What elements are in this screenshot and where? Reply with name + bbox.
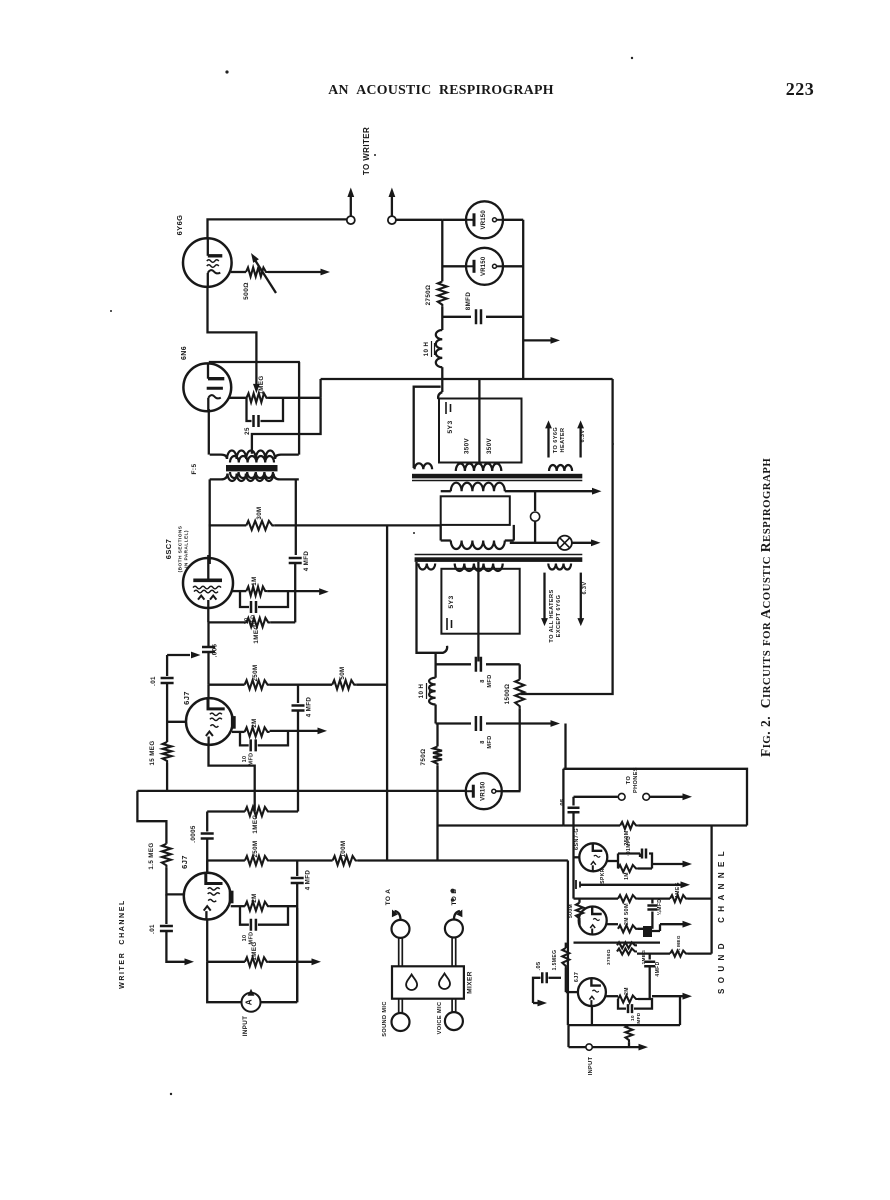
- capacitor .01 upper: [161, 678, 174, 683]
- capacitor 25: [254, 415, 259, 427]
- transformer P2 core: [415, 554, 583, 556]
- transformer P2 5V winding: [418, 564, 435, 570]
- pot arrow across 500 ohm: [254, 259, 276, 294]
- arrow hook A: [395, 911, 401, 920]
- tube V1 6Y6G: [183, 238, 232, 287]
- transformer P2 heater winding: [548, 564, 571, 570]
- mixer box: [392, 966, 464, 998]
- transformer P1 5V winding: [415, 463, 433, 469]
- wire 6N6 stage box top: [209, 361, 300, 363]
- svg-text:4MFD: 4MFD: [655, 961, 661, 976]
- arrow into grid junction: [167, 654, 190, 656]
- wire input column mid: [166, 683, 168, 742]
- svg-text:·SPKR: ·SPKR: [600, 868, 606, 886]
- fuse circle: [534, 491, 536, 511]
- transformer T1 core: [226, 465, 278, 471]
- svg-text:VR150: VR150: [481, 256, 487, 276]
- wire inner right rail: [710, 826, 712, 954]
- wire vr right rail: [522, 220, 524, 379]
- svg-text:2M: 2M: [251, 893, 258, 902]
- resistor 50M a: [332, 680, 356, 689]
- wire pot right: [269, 397, 321, 399]
- arrow 6Y6G heater b: [579, 427, 581, 458]
- svg-text:350V: 350V: [463, 438, 470, 455]
- wire vr2 left: [442, 265, 467, 267]
- resistor 1MEG coupling: [245, 807, 270, 816]
- svg-text:1MEG: 1MEG: [675, 882, 681, 898]
- wire 6SC7 box right (4MFD rail): [295, 479, 297, 555]
- resistor 500 ohm: [246, 268, 268, 277]
- meter A: [242, 993, 261, 1012]
- wire bottom rail left: [567, 1025, 569, 1047]
- svg-text:TO: TO: [626, 776, 632, 785]
- wire cathode row b: [207, 961, 245, 963]
- arrow wire writer output: [268, 271, 322, 273]
- wire B+ vertical rail: [386, 525, 388, 860]
- capacitor 10MFD: [251, 601, 256, 613]
- svg-text:.005: .005: [212, 644, 219, 658]
- svg-text:MFD: MFD: [249, 753, 255, 766]
- svg-text:50M: 50M: [624, 903, 630, 915]
- svg-text:500Ω: 500Ω: [243, 282, 250, 300]
- wire 100M to sound channel rail: [358, 859, 568, 861]
- tube S2: [579, 907, 607, 935]
- rectifier hook no1: [438, 392, 442, 399]
- wire S3 cathode: [591, 1006, 593, 1025]
- resistor bias s2a: [617, 942, 637, 948]
- vr tube VR150 no2: [466, 248, 503, 285]
- mixer shaft B upper: [452, 938, 456, 967]
- choke 10H no2: [434, 653, 436, 678]
- svg-text:INPUT: INPUT: [242, 1016, 249, 1037]
- tube V3 6SC7: [183, 558, 233, 608]
- resistor 250M s1: [620, 822, 638, 829]
- svg-text:5Y3: 5Y3: [448, 595, 455, 608]
- wire plate 6Y6G to top rail: [208, 219, 348, 239]
- wire between plate resistors: [270, 684, 333, 686]
- resistor 50M vol: [618, 895, 638, 902]
- tube S3: [578, 978, 606, 1006]
- wire vr left rail: [441, 220, 443, 282]
- capacitor 4MFD b: [296, 861, 298, 877]
- svg-text:MFD: MFD: [487, 674, 493, 687]
- mixer drop B: [439, 974, 450, 990]
- choke 10H no1: [441, 307, 443, 330]
- svg-text:VOICE MIC: VOICE MIC: [437, 1002, 443, 1035]
- svg-text:1.5MEG: 1.5MEG: [552, 950, 558, 971]
- wire primary2 left: [440, 525, 442, 541]
- wire 6SC7 box left: [209, 479, 211, 564]
- svg-text:6Y6G: 6Y6G: [175, 215, 184, 236]
- svg-text:4 MFD: 4 MFD: [303, 551, 310, 572]
- cap loop S1: [618, 854, 640, 869]
- wire bias row right: [637, 952, 670, 954]
- tube V5 6J7 second: [184, 873, 234, 920]
- wire bias right end: [688, 952, 712, 954]
- wire 6SC7 plate out: [232, 590, 247, 592]
- resistor 15MEG: [163, 742, 172, 763]
- svg-text:30M: 30M: [256, 506, 263, 519]
- wire right boundary: [521, 379, 613, 694]
- svg-text:WRITER CHANNEL: WRITER CHANNEL: [119, 899, 126, 989]
- wire 6J7a plate row: [207, 685, 209, 699]
- resistor 250M b: [245, 856, 270, 865]
- capacitor quarter MFD: [651, 899, 653, 904]
- svg-text:F:5: F:5: [191, 464, 198, 475]
- svg-text:SOUND CHANNEL: SOUND CHANNEL: [717, 846, 726, 994]
- svg-text:350V: 350V: [486, 438, 493, 455]
- arrow S3 out: [652, 995, 684, 997]
- transformer P1 HV secondary: [456, 463, 502, 471]
- svg-text:3750Ω: 3750Ω: [606, 949, 611, 965]
- switch contact phones b: [643, 793, 650, 800]
- svg-text:10 H: 10 H: [418, 684, 425, 699]
- svg-text:PHONES: PHONES: [633, 767, 639, 793]
- wire 6N6 box left edge: [208, 409, 210, 455]
- arrow to writer A: [350, 195, 352, 216]
- svg-text:6J7: 6J7: [180, 855, 189, 869]
- wire coupling node row: [207, 810, 245, 812]
- svg-text:223: 223: [786, 79, 815, 99]
- transformer T1 primary: [227, 451, 275, 460]
- svg-text:6.3V: 6.3V: [582, 581, 588, 594]
- wire bottom rail: [569, 1046, 641, 1048]
- wire vr1 right: [502, 219, 523, 221]
- wire bottom loop: [207, 962, 297, 1002]
- wire plate row to B+ rail: [274, 524, 440, 526]
- transformer P1 core: [412, 474, 582, 479]
- arrow heaters a: [543, 573, 545, 619]
- mixer shaft A upper: [399, 938, 403, 966]
- resistor 2M a: [245, 727, 270, 736]
- switch contact B: [388, 216, 396, 224]
- svg-text:MFD: MFD: [487, 735, 493, 748]
- cap 10MFD loop: [240, 591, 288, 607]
- wire 6J7b cathode: [206, 920, 208, 962]
- resistor 100M b: [333, 856, 358, 865]
- cap 10MFD b loop: [240, 906, 288, 925]
- capacitor 4MFD a: [297, 685, 299, 703]
- wire 6Y6G output: [231, 271, 246, 273]
- wire pot right down to transformer: [252, 398, 321, 454]
- svg-text:.01: .01: [150, 676, 157, 686]
- resistor 1MEG cathode b: [245, 957, 269, 966]
- resistor 1.5MEG s3: [565, 943, 567, 948]
- resistor 1M s1: [618, 865, 638, 872]
- pilot lamp: [558, 536, 572, 550]
- switch contact A: [347, 216, 355, 224]
- wire input column to long rail: [166, 763, 168, 791]
- svg-text:.01: .01: [149, 924, 156, 934]
- rectifier 5Y3 box no2: [441, 569, 519, 634]
- wire 6Y6G cathode down: [208, 287, 257, 391]
- wire coupling cap to grid junction: [207, 652, 209, 685]
- capacitor .0005: [201, 834, 214, 839]
- resistor cathode s3: [626, 1025, 633, 1042]
- svg-text:VR150: VR150: [480, 781, 486, 801]
- wire plate row S1 right: [638, 824, 747, 826]
- svg-text:15 MEG: 15 MEG: [149, 740, 156, 765]
- resistor 1M grid leak: [246, 587, 267, 596]
- wire primary1 line: [441, 490, 451, 492]
- wire plate row left: [209, 524, 247, 526]
- svg-text:1MEG: 1MEG: [252, 814, 259, 833]
- svg-text:10: 10: [242, 756, 248, 763]
- wire coupling cap .0005 stub: [206, 812, 208, 832]
- svg-text:8: 8: [480, 679, 486, 683]
- wire vr1 left: [442, 219, 467, 221]
- tube S1: [579, 843, 607, 871]
- capacitor 8MFD mid: [436, 663, 471, 665]
- capacitor 8MFD top: [442, 316, 471, 318]
- wire coupling node right: [270, 810, 298, 812]
- svg-text:100M: 100M: [340, 840, 347, 857]
- pot wiper from 6Y6G cathode: [253, 384, 260, 394]
- svg-text:SOUND MIC: SOUND MIC: [382, 1001, 388, 1037]
- arrow mains: [572, 542, 593, 544]
- capacitor 10MFD b: [251, 919, 256, 931]
- capacitor 10MFD a: [251, 739, 256, 751]
- svg-text:FIG. 2. CIRCUITS FOR ACOUSTIC: FIG. 2. CIRCUITS FOR ACOUSTIC RESPIROGRA…: [758, 458, 773, 757]
- svg-text:.0005: .0005: [190, 825, 197, 843]
- arrow S1 out: [652, 863, 684, 865]
- svg-text:A: A: [245, 999, 254, 1005]
- svg-text:10: 10: [242, 935, 248, 942]
- wire input column upper: [166, 655, 168, 676]
- svg-text:50M: 50M: [339, 666, 346, 679]
- svg-text:5Y3: 5Y3: [447, 420, 454, 433]
- arrow B+ output top: [523, 339, 552, 341]
- resistor 1MEG vol: [670, 895, 688, 902]
- svg-text:TO 6Y6G: TO 6Y6G: [553, 427, 559, 453]
- wire 6J7a cathode: [209, 745, 255, 811]
- wire left column to coupling cap: [207, 622, 209, 646]
- rectifier filament detail no2: [447, 618, 452, 630]
- cap 25 loop: [247, 398, 284, 421]
- resistor 2750 ohm: [438, 281, 447, 306]
- wire sound channel left drop: [567, 861, 569, 1026]
- svg-text:TO A: TO A: [385, 889, 392, 906]
- wire switch B to VR rail: [396, 219, 442, 221]
- resistor bias s2b: [617, 949, 637, 955]
- vr tube VR150 no3: [466, 773, 502, 809]
- svg-text:6J7: 6J7: [574, 972, 580, 983]
- svg-text:MFD: MFD: [636, 1012, 641, 1023]
- mixer jack B top: [445, 920, 463, 938]
- wire vr2 right: [502, 265, 523, 267]
- wire volume row mid: [638, 897, 670, 899]
- resistor 2M b: [245, 902, 270, 911]
- wire to 6J7b grid: [166, 867, 183, 894]
- wire long ground rail: [137, 790, 466, 792]
- svg-text:4 MFD: 4 MFD: [306, 697, 313, 718]
- svg-text:TO ALL HEATERS: TO ALL HEATERS: [549, 589, 555, 642]
- wire HV center tap no1: [478, 379, 480, 463]
- svg-text:6J7: 6J7: [182, 691, 191, 705]
- wire 6SC7 cathode: [207, 607, 209, 622]
- svg-text:1MEG: 1MEG: [251, 941, 258, 960]
- svg-text:1MEG: 1MEG: [258, 375, 265, 394]
- capacitor 4MFD s: [649, 954, 651, 960]
- wire 4MFD to cathode rail: [294, 563, 296, 622]
- wire bottom right vertical: [296, 908, 298, 1002]
- resistor 1MEG cathode: [246, 618, 270, 627]
- wire S3 grid: [566, 991, 579, 993]
- svg-text:2M: 2M: [624, 987, 630, 995]
- capacitor .01 lower: [160, 926, 173, 931]
- wire S3 plate: [606, 995, 618, 997]
- wire left stub step: [137, 791, 166, 844]
- capacitor .05 s3: [549, 977, 562, 979]
- svg-text:¼MFD: ¼MFD: [656, 899, 663, 916]
- tube V4 6J7: [186, 698, 236, 745]
- scan specks: [110, 57, 633, 1095]
- arrow 6J7a output: [270, 730, 318, 732]
- wire spkr row: [580, 884, 682, 886]
- wire S2 plate: [607, 923, 618, 925]
- transformer T1 secondary: [228, 474, 274, 482]
- wire below S2: [574, 941, 661, 943]
- arrow heaters b: [580, 573, 582, 619]
- arrow hook B: [454, 911, 460, 920]
- svg-text:8: 8: [480, 740, 486, 744]
- svg-text:VR150: VR150: [481, 210, 487, 230]
- capacitor .05 top: [572, 797, 574, 806]
- svg-text:2M: 2M: [624, 917, 630, 925]
- capacitor 8MFD low: [436, 722, 471, 724]
- potentiometer 1MEG: [247, 393, 269, 402]
- wire 6J7b plate row: [206, 861, 208, 873]
- wire 50M to B+ rail: [356, 684, 387, 686]
- svg-text:1M: 1M: [624, 872, 630, 880]
- resistor 30M plate: [246, 521, 274, 530]
- wire 6J7b plate out: [231, 905, 245, 907]
- mixer jack B bottom: [445, 1012, 463, 1030]
- resistor quarter meg: [670, 951, 688, 957]
- vr tube VR150 no1: [466, 201, 503, 238]
- resistor 1.5MEG: [162, 844, 171, 868]
- transformer P2 primary: [451, 541, 505, 550]
- svg-text:6SC7: 6SC7: [164, 539, 173, 559]
- wire S3 right rail: [679, 996, 681, 1025]
- svg-text:10: 10: [630, 1015, 635, 1021]
- arrow 6SC7 output: [267, 590, 320, 592]
- svg-text:4 MFD: 4 MFD: [305, 870, 312, 891]
- sound channel phones box: [563, 769, 747, 826]
- wire vr3 bottom row: [438, 824, 564, 826]
- wire S1 grid: [574, 856, 580, 858]
- svg-text:INPUT: INPUT: [588, 1056, 594, 1075]
- wire 5V loop no1: [414, 387, 441, 468]
- svg-text:1.5 MEG: 1.5 MEG: [148, 842, 155, 869]
- wire volume row: [574, 897, 619, 899]
- svg-text:250M: 250M: [252, 840, 259, 857]
- mixer jack A top: [392, 920, 410, 938]
- rectifier filament detail no1: [446, 402, 451, 414]
- blob cap s2: [643, 926, 652, 937]
- resistor 2M s3: [618, 996, 638, 1003]
- mixer shaft A lower: [399, 999, 403, 1013]
- wire cathode row: [209, 621, 247, 623]
- wire between plate resistors b: [270, 859, 333, 861]
- wire 6J7a grid: [167, 721, 185, 723]
- wire lower arrow branch: [166, 931, 186, 962]
- svg-text:IN PARALLEL): IN PARALLEL): [184, 530, 190, 568]
- wire to lower .01 cap: [165, 894, 167, 924]
- primary loop box: [441, 496, 510, 525]
- svg-text:1MEG: 1MEG: [253, 624, 260, 643]
- mixer shaft B lower: [452, 999, 456, 1013]
- svg-text:1500Ω: 1500Ω: [504, 684, 511, 705]
- wire junction to B+ line: [319, 379, 321, 398]
- rectifier 5Y3 box no1: [439, 399, 522, 463]
- resistor 250M plate a: [245, 680, 270, 689]
- arrow S2 out: [660, 923, 684, 925]
- wire S1 plate: [607, 860, 618, 862]
- pot 500M: [576, 903, 583, 921]
- svg-text:6SN7-G: 6SN7-G: [574, 828, 580, 850]
- wire B+ long line: [321, 378, 613, 380]
- svg-text:8MFD: 8MFD: [465, 292, 472, 311]
- svg-text:MIXER: MIXER: [467, 971, 474, 994]
- svg-text:500M: 500M: [568, 904, 574, 918]
- wire 2M b to 4MFD rail: [270, 905, 297, 907]
- svg-text:AN ACOUSTIC RESPIROGRAPH: AN ACOUSTIC RESPIROGRAPH: [328, 82, 554, 97]
- wire 6N6 box right edge: [298, 362, 300, 455]
- svg-text:EXCEPT 6Y6G: EXCEPT 6Y6G: [556, 595, 562, 638]
- cap 10MFD s3 loop: [618, 999, 652, 1009]
- input jack: [586, 1044, 592, 1050]
- arrow phones: [650, 796, 684, 798]
- wire 5V loop no2: [417, 562, 448, 653]
- svg-text:10 H: 10 H: [423, 342, 430, 357]
- transformer P1 heater winding: [549, 465, 572, 471]
- wire sound channel B+ drop: [564, 724, 566, 769]
- transformer P1 primary: [451, 483, 505, 492]
- svg-text:1M: 1M: [251, 576, 258, 585]
- wire HV center tap no2: [477, 562, 479, 662]
- capacitor .005 coupling: [202, 647, 215, 652]
- wire S3 bottom row: [569, 1024, 681, 1026]
- wire phones feed: [574, 796, 618, 798]
- svg-text:HEATER: HEATER: [560, 428, 566, 453]
- resistor 2M s2: [618, 925, 638, 932]
- svg-text:TO WRITER: TO WRITER: [362, 127, 371, 175]
- arrow to writer B: [391, 195, 393, 216]
- svg-text:.05: .05: [560, 798, 566, 808]
- arrow 6Y6G heater a: [547, 427, 549, 458]
- svg-text:¼ MEG: ¼ MEG: [675, 935, 681, 953]
- svg-text:6.3V: 6.3V: [580, 429, 586, 442]
- transformer P2 HV secondary: [455, 564, 503, 571]
- svg-text:6N6: 6N6: [181, 346, 188, 360]
- pilot lamp wire: [510, 542, 558, 544]
- svg-text:25: 25: [244, 427, 251, 435]
- svg-text:2M: 2M: [251, 718, 258, 727]
- svg-text:·01MFD: ·01MFD: [626, 836, 632, 856]
- svg-text:750Ω: 750Ω: [420, 749, 427, 766]
- wire 6SC7 grid top: [207, 555, 209, 559]
- switch contact phones a: [618, 793, 625, 800]
- tube V2 6N6: [183, 363, 231, 411]
- resistor 750 ohm: [436, 724, 438, 747]
- wire volume row right: [688, 897, 712, 899]
- mixer drop A: [406, 975, 417, 991]
- mixer jack A bottom: [392, 1013, 410, 1031]
- svg-text:.05: .05: [536, 962, 542, 971]
- wire 6J7a plate out: [232, 731, 245, 733]
- svg-text:2750Ω: 2750Ω: [425, 285, 432, 306]
